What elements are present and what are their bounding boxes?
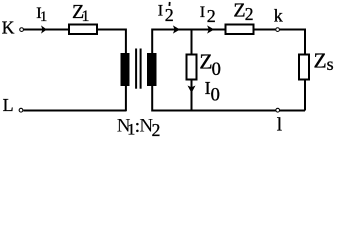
svg-text:1: 1 (40, 9, 47, 25)
svg-text:1: 1 (82, 8, 90, 25)
svg-text:0: 0 (211, 86, 220, 106)
svg-text:Z: Z (314, 49, 327, 73)
svg-text:Z: Z (233, 0, 245, 22)
svg-text:2: 2 (152, 120, 161, 140)
svg-text:K: K (2, 18, 15, 38)
svg-text:0: 0 (212, 60, 221, 80)
svg-text:s: s (327, 54, 334, 74)
svg-text:I: I (200, 4, 205, 21)
svg-text:2: 2 (207, 6, 216, 26)
svg-text:Z: Z (199, 50, 212, 74)
svg-text:k: k (274, 6, 283, 26)
svg-text:2: 2 (245, 4, 254, 24)
svg-text:L: L (3, 95, 14, 115)
svg-text:l: l (277, 115, 282, 136)
svg-text:I: I (158, 3, 163, 20)
svg-text:2: 2 (165, 5, 174, 25)
